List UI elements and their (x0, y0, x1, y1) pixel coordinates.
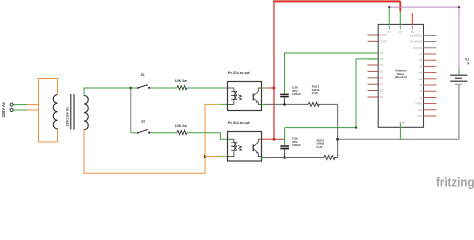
wire: IC bottom pin to ground line (399, 123, 401, 140)
svg-text:A3: A3 (419, 77, 423, 81)
phototransistor (252, 94, 254, 101)
svg-text:D9: D9 (380, 95, 384, 99)
wire: R2 to opto U2 (187, 133, 228, 140)
svg-text:D1/TX: D1/TX (380, 33, 388, 37)
node: row split junction (130, 87, 133, 90)
svg-text:A5: A5 (419, 64, 423, 68)
wire: C38 top riser to IC pin (green) (285, 53, 379, 94)
svg-text:9: 9 (467, 62, 469, 66)
svg-text:AREF: AREF (415, 102, 422, 106)
secondary coil (84, 95, 88, 129)
wire: opto U1 collector to +red rail (262, 87, 267, 89)
svg-text:3V3: 3V3 (418, 108, 423, 112)
wire: purple battery positive (389, 7, 459, 75)
svg-text:D5: D5 (380, 69, 384, 73)
svg-text:D13: D13 (417, 114, 422, 118)
svg-text:D0/RX: D0/RX (380, 39, 388, 43)
switch S1 (137, 73, 150, 89)
svg-text:D4: D4 (380, 63, 384, 67)
node: red junction row2 (273, 138, 276, 141)
svg-text:A1: A1 (419, 89, 423, 93)
wire: orange return from secondary bottom (84, 104, 205, 173)
wire: opto U2 emitter net (262, 157, 338, 159)
capacitor C39 (280, 137, 301, 158)
wire: branch to opto U1 cathode (orange to green) (205, 103, 228, 105)
wire: opto U1 emitter net (green then grey) (262, 103, 338, 105)
wire: red rail vertical + top horizontal (thick) (273, 1, 400, 139)
svg-text:GND: GND (399, 120, 405, 124)
svg-text:(Rev3.0): (Rev3.0) (395, 75, 407, 79)
svg-text:Pc 814 ac opt: Pc 814 ac opt (228, 121, 251, 125)
transformer T1 (53, 94, 88, 130)
IC left pin labels (380, 33, 388, 99)
IC U3 Arduino Nano (378, 24, 423, 127)
wire: opto U2 collector to red rail and cap riser (262, 138, 285, 140)
IC right pin labels (410, 33, 423, 118)
svg-text:A2: A2 (419, 83, 423, 87)
svg-text:A4: A4 (419, 71, 423, 75)
svg-text:RS: RS (411, 31, 415, 34)
svg-text:fritzing: fritzing (436, 176, 474, 190)
svg-text:D7: D7 (380, 82, 384, 86)
light arrows (238, 95, 241, 100)
node: green bendpoint (355, 126, 357, 128)
node: red junction row1 (273, 87, 276, 90)
svg-text:A7: A7 (419, 52, 423, 56)
core bars (70, 94, 72, 130)
wire: secondary top lead (green) to row split (84, 88, 131, 96)
svg-text:D2: D2 (380, 51, 384, 55)
svg-text:D3: D3 (380, 57, 384, 61)
wire: primary loop (orange) (39, 79, 58, 143)
wire: branch to opto U2 cathode (205, 156, 228, 158)
node: C38 bottom junction (283, 103, 286, 106)
switch S2 (137, 120, 150, 134)
wire: terminal top to primary loop (13, 104, 38, 106)
resistor R324 (317, 138, 336, 159)
svg-text:D6: D6 (380, 76, 384, 80)
svg-text:Pc 814 ac opt: Pc 814 ac opt (228, 71, 251, 75)
svg-text:3V: 3V (399, 31, 402, 34)
wire: row1 to switch S1 (131, 87, 138, 89)
svg-text:100nF: 100nF (292, 92, 301, 96)
resistor R2 10K 2w (175, 124, 187, 135)
svg-text:S2: S2 (141, 120, 145, 124)
wire: long ground line to battery (338, 138, 459, 140)
node: C39 bottom junction (283, 156, 286, 159)
wire: green top wires into IC (389, 7, 400, 24)
resistor R321 (308, 85, 320, 107)
LED bowtie (228, 88, 234, 91)
svg-text:D11/MOSI: D11/MOSI (410, 40, 422, 44)
svg-text:D8: D8 (380, 89, 384, 93)
svg-text:0.25: 0.25 (312, 91, 318, 95)
wire: terminal bottom to primary loop (13, 109, 38, 111)
svg-text:A6: A6 (419, 58, 423, 62)
primary coil (53, 95, 57, 129)
capacitor C38 (280, 86, 301, 105)
svg-text:230V Ac: 230V Ac (1, 101, 6, 118)
wire: C39 riser up and across to IC pin (green) (285, 59, 379, 145)
svg-text:D10/SS: D10/SS (413, 46, 422, 50)
wire: S2 to R2 (150, 132, 177, 134)
IC right pins (424, 35, 437, 116)
IC left pins (368, 35, 379, 97)
svg-text:5V: 5V (388, 31, 391, 34)
optocoupler U2 PC814 (bottom) (228, 121, 262, 161)
battery V1 9v (450, 57, 469, 139)
node: purple bendpoints (388, 6, 390, 8)
svg-text:220/110v Ac: 220/110v Ac (66, 107, 70, 127)
wire: S1 to R1 (150, 87, 177, 89)
wire: vertical to row 2 (130, 88, 132, 133)
node: GND tee junction (336, 138, 339, 141)
AC source terminals V230 (1, 101, 13, 118)
node: orange branch junction (204, 155, 207, 158)
svg-text:A0: A0 (419, 95, 423, 99)
wire: row2 from split to S2 (131, 132, 138, 134)
svg-text:S1: S1 (141, 73, 145, 77)
resistor R1 10K 2w (175, 79, 187, 90)
IC top pin stubs (389, 24, 412, 29)
wire: R1 to opto U1 (187, 87, 228, 89)
wire: vertical joining R321/R324 nets (337, 104, 339, 157)
wire: red stub top right (411, 13, 413, 24)
svg-text:0.25: 0.25 (317, 145, 323, 149)
optocoupler U1 PC814 (top) (228, 71, 262, 111)
svg-text:100nF: 100nF (292, 143, 301, 147)
svg-text:10K 2w: 10K 2w (175, 124, 187, 128)
svg-text:10K 2w: 10K 2w (175, 79, 187, 83)
